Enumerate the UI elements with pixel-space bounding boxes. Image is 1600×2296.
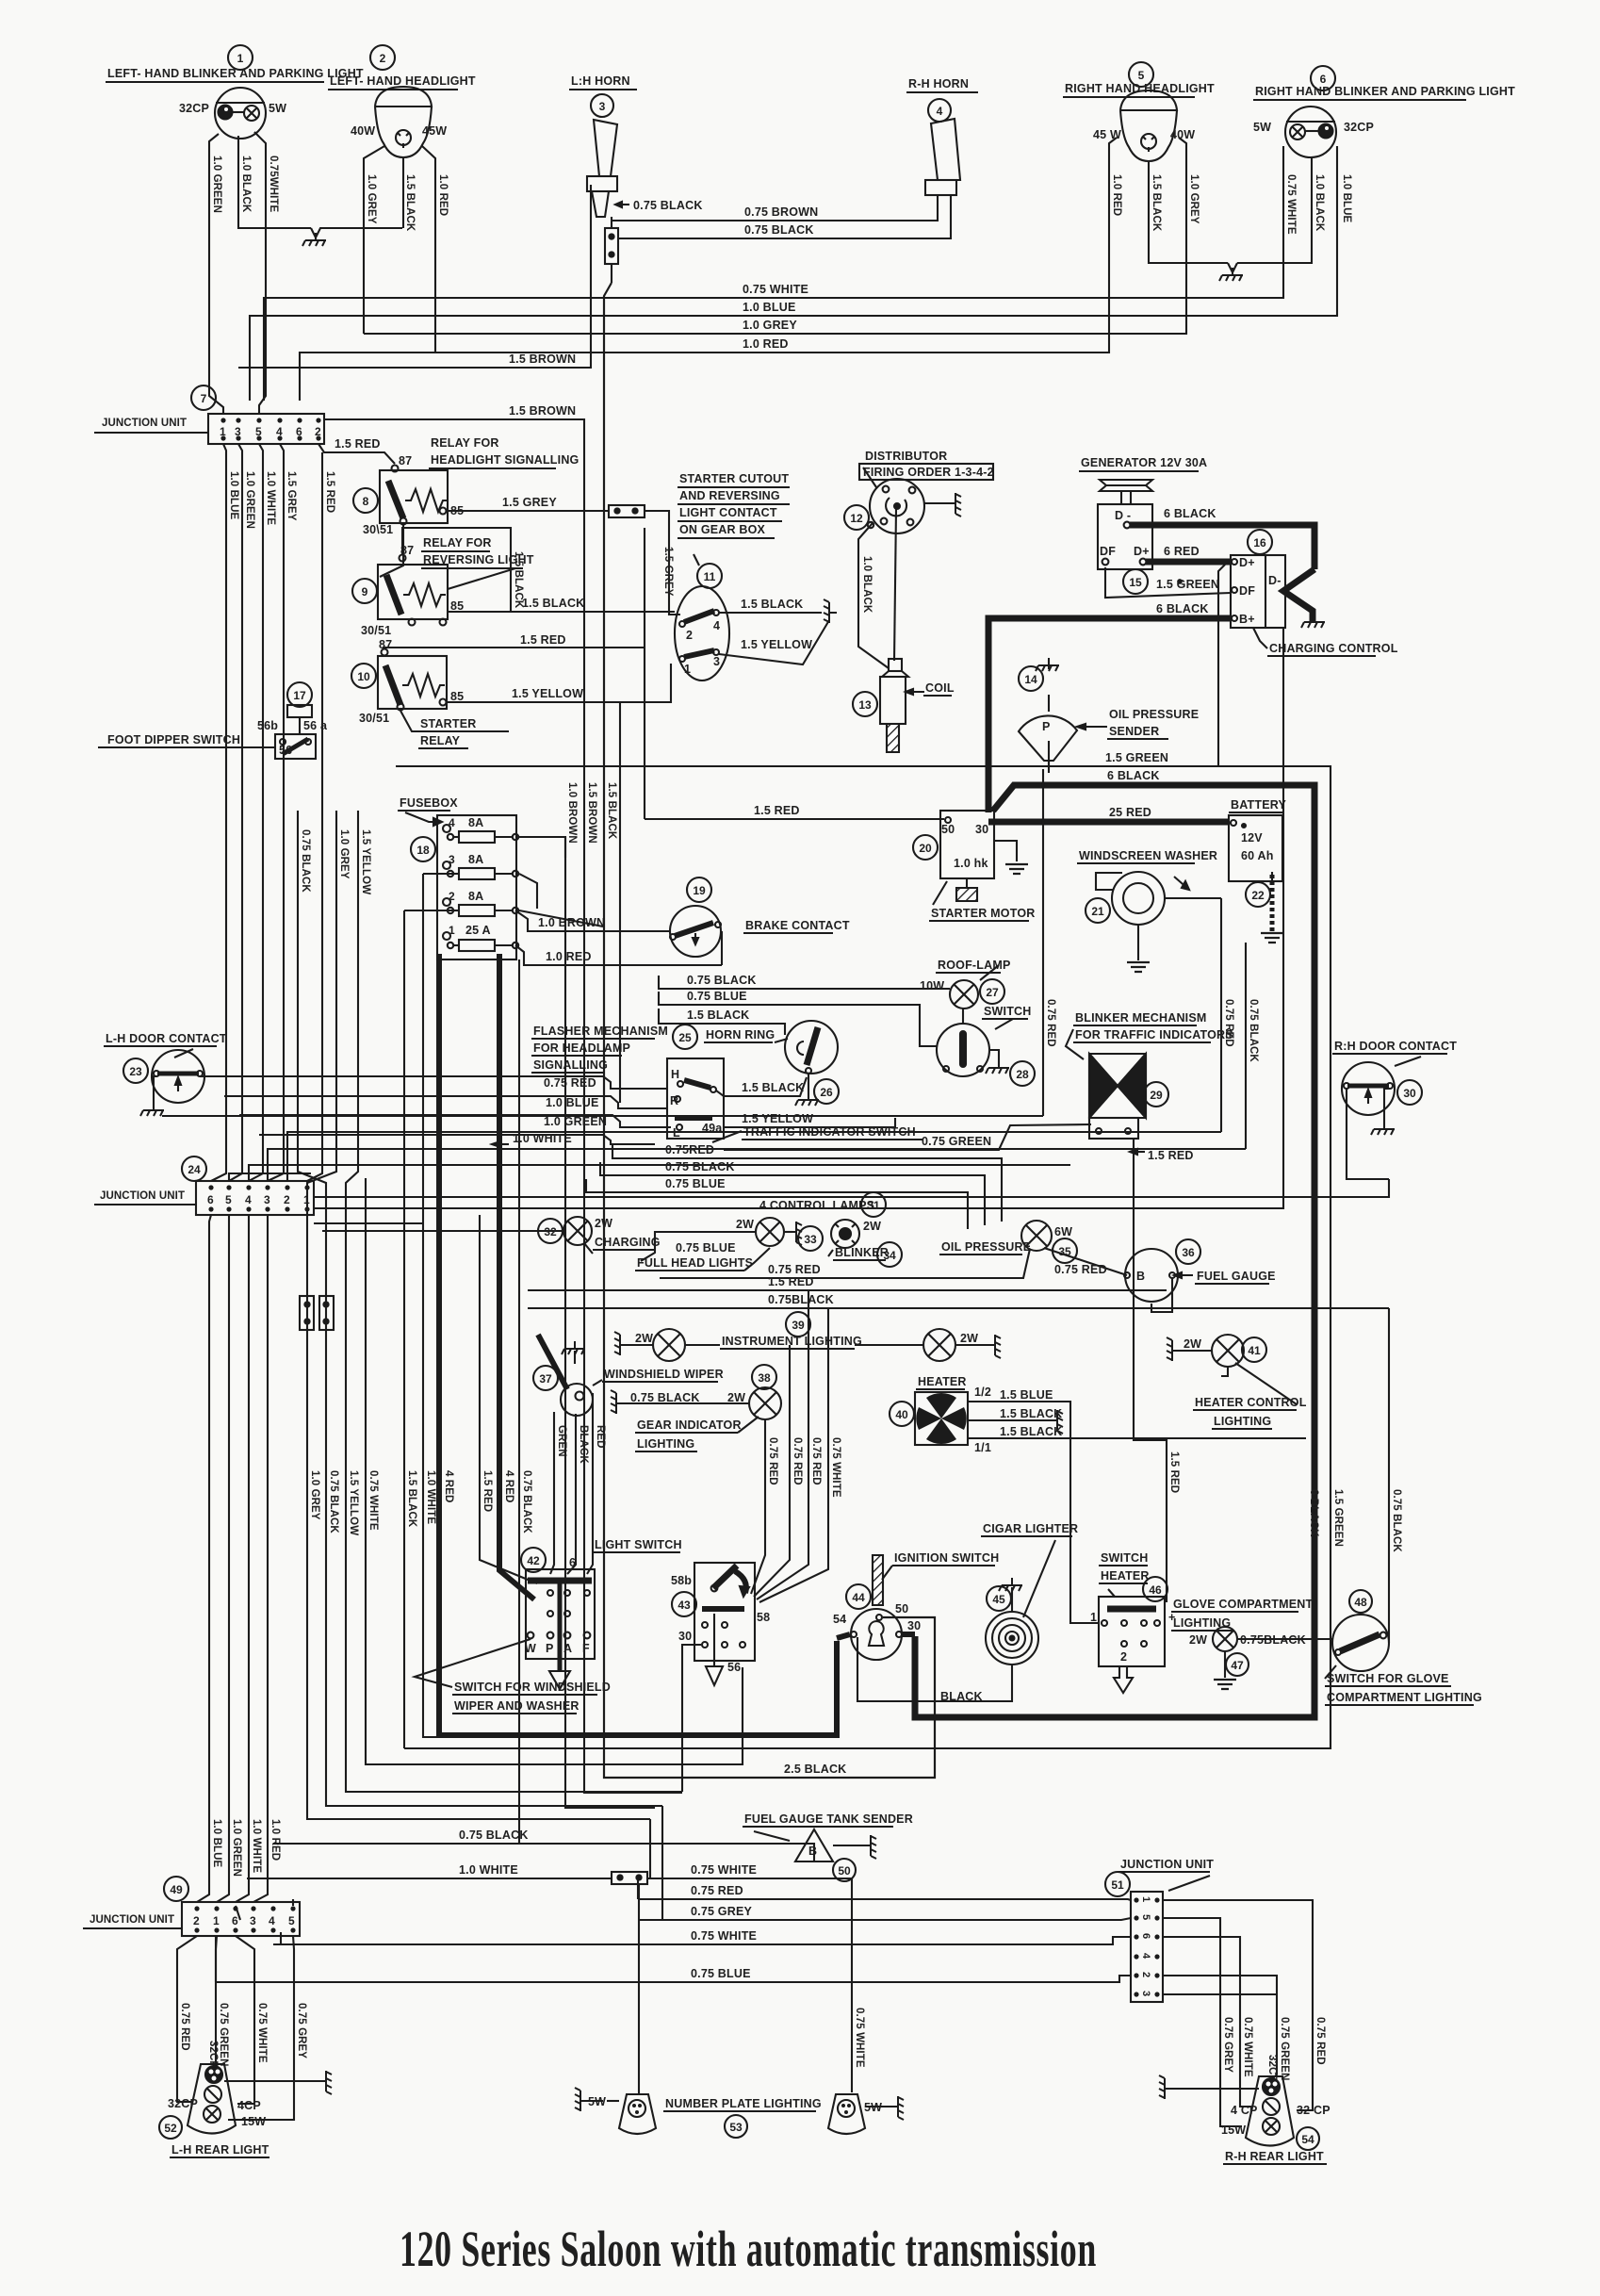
svg-text:DF: DF — [1100, 545, 1116, 558]
svg-text:1.5 RED: 1.5 RED — [1168, 1451, 1180, 1493]
fusebox 18 — [398, 796, 518, 959]
wire 1.5 GREY (connector to contact 11) — [645, 511, 680, 615]
wire 1.5 YELLOW — [346, 811, 682, 1792]
svg-text:0.75 BLACK: 0.75 BLACK — [300, 829, 311, 893]
wire 1.0 BLUE bus — [250, 146, 1337, 401]
wiper motor leads GREEN BLACK RED — [550, 1393, 606, 1574]
svg-text:AND REVERSING: AND REVERSING — [679, 489, 780, 502]
svg-text:2: 2 — [284, 1193, 290, 1206]
oil pressure lamp 35 — [939, 1221, 1077, 1263]
svg-text:1.5 BLUE: 1.5 BLUE — [1000, 1388, 1053, 1402]
wire 1.5 BLACK (flasher to horn ring) — [716, 1077, 807, 1096]
svg-text:0.75 RED: 0.75 RED — [768, 1263, 821, 1276]
svg-text:OIL PRESSURE: OIL PRESSURE — [1109, 708, 1199, 721]
rear light 52 (L-H) wires — [177, 1936, 307, 2120]
svg-text:2W: 2W — [1184, 1337, 1201, 1351]
junction unit 51 — [1105, 1858, 1214, 2002]
svg-text:LIGHT SWITCH: LIGHT SWITCH — [595, 1538, 682, 1551]
wire 1.5 GREEN (oil sender to right vertical) — [396, 741, 1331, 1748]
svg-text:0.75 BLACK: 0.75 BLACK — [633, 199, 703, 212]
svg-text:1.0 BLUE: 1.0 BLUE — [1341, 174, 1352, 223]
svg-text:85: 85 — [450, 599, 464, 613]
svg-text:1.0 GREEN: 1.0 GREEN — [244, 471, 255, 529]
svg-text:1.5 YELLOW: 1.5 YELLOW — [741, 638, 812, 651]
svg-text:87: 87 — [399, 454, 412, 467]
wire 0.75 BLUE (to switch 28) — [659, 990, 937, 1046]
svg-text:0.75 BLUE: 0.75 BLUE — [676, 1241, 736, 1255]
ground for lamps 1-2 — [302, 228, 402, 246]
lamp 5: right hand headlight — [1063, 62, 1215, 161]
svg-text:WINDSHIELD WIPER: WINDSHIELD WIPER — [604, 1368, 724, 1381]
wire 0.75 WHITE bus — [264, 146, 1283, 401]
svg-text:1.5 BLACK: 1.5 BLACK — [741, 598, 803, 611]
svg-text:COMPARTMENT LIGHTING: COMPARTMENT LIGHTING — [1327, 1691, 1482, 1704]
svg-text:12V: 12V — [1241, 831, 1263, 845]
svg-text:1: 1 — [1140, 1896, 1151, 1902]
wire 1.5 RED long vertical at 684 — [644, 528, 645, 819]
wire 25 RED (starter motor to battery, thick) — [988, 819, 1230, 826]
svg-text:1: 1 — [237, 52, 244, 65]
svg-text:FIRING ORDER 1-3-4-2: FIRING ORDER 1-3-4-2 — [863, 466, 994, 479]
coil 13 — [853, 659, 955, 752]
svg-text:W: W — [525, 1642, 536, 1655]
svg-text:14: 14 — [1024, 673, 1037, 686]
svg-text:1.0 BLUE: 1.0 BLUE — [546, 1096, 598, 1109]
svg-text:45 W: 45 W — [1093, 128, 1121, 141]
svg-text:R-H HORN: R-H HORN — [908, 77, 969, 90]
svg-text:CHARGING CONTROL: CHARGING CONTROL — [1269, 642, 1398, 655]
svg-text:P: P — [1042, 720, 1051, 733]
wire 4 RED (thick, to wiper switch) — [499, 954, 534, 1599]
wire 0.75 BLACK (glove switch up) — [1389, 1308, 1402, 1643]
svg-text:WIPER AND WASHER: WIPER AND WASHER — [454, 1699, 580, 1713]
svg-text:0.75 BLACK: 0.75 BLACK — [744, 223, 814, 237]
svg-text:3: 3 — [264, 1193, 270, 1206]
svg-text:56: 56 — [279, 744, 292, 757]
nested corner wires into light switch area — [638, 1645, 701, 1920]
svg-text:1.0 RED: 1.0 RED — [437, 174, 449, 216]
switch 42 for windshield wiper and washer — [415, 1548, 611, 1714]
svg-text:19: 19 — [693, 884, 706, 897]
svg-text:1.0 hk: 1.0 hk — [954, 857, 988, 870]
svg-text:52: 52 — [164, 2122, 177, 2135]
svg-text:INSTRUMENT LIGHTING: INSTRUMENT LIGHTING — [722, 1335, 862, 1348]
svg-text:WINDSCREEN WASHER: WINDSCREEN WASHER — [1079, 849, 1217, 862]
connectors on grey/black wires — [300, 1296, 314, 1330]
svg-text:1.0 GREY: 1.0 GREY — [743, 319, 797, 332]
wire 1.5 BLACK (heater lower) — [968, 1425, 1306, 1438]
svg-text:BLACK: BLACK — [578, 1425, 589, 1464]
svg-text:85: 85 — [450, 690, 464, 703]
svg-text:F: F — [582, 1642, 590, 1655]
svg-text:GEAR INDICATOR: GEAR INDICATOR — [637, 1419, 742, 1432]
svg-text:2: 2 — [193, 1914, 200, 1927]
svg-text:4: 4 — [937, 105, 943, 118]
number plate lighting 53 (right lamp) — [828, 2094, 904, 2134]
svg-text:25 A: 25 A — [465, 924, 491, 937]
rear light 52 (L-H) — [159, 2064, 332, 2157]
svg-text:0.75 BLACK: 0.75 BLACK — [1248, 999, 1259, 1062]
svg-text:1.0 WHITE: 1.0 WHITE — [513, 1132, 572, 1145]
svg-text:D+: D+ — [1239, 556, 1255, 569]
svg-text:R-H REAR LIGHT: R-H REAR LIGHT — [1225, 2150, 1324, 2163]
svg-text:1.5 BLACK: 1.5 BLACK — [687, 1009, 749, 1022]
svg-text:1: 1 — [684, 663, 691, 676]
wire 0.75 RED (lamp row right) — [660, 1249, 1030, 1278]
svg-text:SENDER: SENDER — [1109, 725, 1159, 738]
wire 1.5 BLACK (lamp 5 to ground) — [1149, 162, 1228, 263]
svg-text:0.75 GREY: 0.75 GREY — [691, 1905, 752, 1918]
wire BLACK label (cigar lighter feed) — [940, 1690, 983, 1703]
wire 1.0 RED (fuse 1 right) — [515, 945, 722, 965]
svg-text:47: 47 — [1231, 1659, 1244, 1672]
wire 0.75 BROWN (horn 3 to horn 4) — [612, 195, 938, 221]
svg-text:HEATER: HEATER — [1101, 1569, 1150, 1583]
horn ring 26 — [673, 1021, 839, 1106]
gear indicator lighting 38 — [611, 1365, 781, 1451]
svg-text:1.5 YELLOW: 1.5 YELLOW — [742, 1112, 813, 1125]
svg-text:1.5 BLACK: 1.5 BLACK — [606, 782, 617, 840]
wire 0.75 BLACK (horn 3 to horn 4) — [618, 195, 951, 238]
svg-text:0.75 WHITE: 0.75 WHITE — [691, 1929, 757, 1943]
svg-text:JUNCTION UNIT: JUNCTION UNIT — [90, 1914, 174, 1926]
svg-text:4 CP: 4 CP — [1231, 2104, 1258, 2117]
svg-text:6: 6 — [1320, 73, 1327, 86]
wire 0.75 RED (left to flasher) — [204, 1076, 667, 1090]
svg-text:DISTRIBUTOR: DISTRIBUTOR — [865, 450, 947, 463]
traffic indicator switch label — [712, 1125, 923, 1142]
svg-text:23: 23 — [129, 1065, 142, 1078]
wire 6 BLACK (regulator B+ to left, thick) — [988, 618, 1231, 812]
svg-text:39: 39 — [792, 1319, 805, 1332]
svg-text:25: 25 — [678, 1031, 692, 1044]
svg-text:1.5 GREEN: 1.5 GREEN — [1105, 751, 1168, 764]
svg-text:1.5 BROWN: 1.5 BROWN — [586, 782, 597, 844]
lamp 2: left-hand headlight — [328, 45, 476, 157]
light switch 43 — [593, 1538, 770, 1685]
wire 1.0 WHITE (left to flasher) — [259, 1132, 655, 1147]
wire 1.5 YELLOW (relay 10 85 to right) — [447, 664, 671, 702]
svg-text:30: 30 — [1403, 1087, 1416, 1100]
svg-text:NUMBER PLATE LIGHTING: NUMBER PLATE LIGHTING — [665, 2097, 822, 2110]
switch heater 46 — [1090, 1551, 1176, 1693]
wire 1.5 RED (vertical at 342 down) — [307, 452, 335, 1181]
wire 1.5 BROWN (upper, to L-H horn branch) — [238, 185, 591, 368]
wire from L-H horn down — [611, 217, 612, 283]
svg-text:B: B — [1136, 1270, 1145, 1283]
svg-text:2W: 2W — [727, 1391, 745, 1404]
svg-text:2: 2 — [449, 890, 455, 903]
wire 0.75 RED (bottom bus 2) — [638, 1884, 1131, 1900]
instrument lamp right — [855, 1329, 1001, 1361]
instrument lighting 39 — [720, 1312, 862, 1349]
contact 11: starter cutout and reversing light contact on gear box — [675, 472, 790, 681]
svg-text:HORN RING: HORN RING — [706, 1028, 775, 1041]
svg-text:6 BLACK: 6 BLACK — [1107, 769, 1160, 782]
svg-text:LEFT- HAND HEADLIGHT: LEFT- HAND HEADLIGHT — [330, 74, 476, 88]
svg-text:6 BLACK: 6 BLACK — [1164, 507, 1216, 520]
svg-text:3: 3 — [1140, 1991, 1151, 1996]
svg-text:1.0 BLUE: 1.0 BLUE — [743, 301, 795, 314]
svg-text:0.75 GREEN: 0.75 GREEN — [922, 1135, 991, 1148]
svg-text:1.5 BLACK: 1.5 BLACK — [742, 1081, 804, 1094]
svg-text:1: 1 — [213, 1914, 220, 1927]
wire 1.5 YELLOW (flasher L) — [724, 1112, 895, 1127]
svg-text:34: 34 — [883, 1249, 896, 1262]
svg-text:FULL HEAD LIGHTS: FULL HEAD LIGHTS — [637, 1256, 753, 1270]
wire 1.0 GREY bus — [364, 138, 1186, 334]
wire 0.75 RED (washer down) — [1221, 898, 1234, 1132]
svg-text:SWITCH FOR WINDSHIELD: SWITCH FOR WINDSHIELD — [454, 1681, 611, 1694]
relay 10: starter relay — [351, 638, 509, 748]
wire 0.75 BLACK — [518, 959, 520, 1844]
svg-text:26: 26 — [820, 1086, 833, 1099]
svg-text:BRAKE CONTACT: BRAKE CONTACT — [745, 919, 850, 932]
wire 1.0 GREY (lamp 2 to grey bus) — [364, 146, 384, 334]
svg-text:4: 4 — [449, 816, 455, 829]
bottom bus left risers — [216, 1899, 293, 1982]
svg-text:1.0 RED: 1.0 RED — [1111, 174, 1122, 216]
wire 1.0 BLUE (left to flasher) — [224, 1096, 667, 1109]
wire 1.0 BROWN label right of fusebox — [519, 837, 565, 909]
wire 0.75 BLACK (control lamp bus 2) — [600, 1160, 985, 1225]
svg-text:30: 30 — [907, 1619, 921, 1632]
wire 6 BLACK (generator D- to regulator D-) thick — [1130, 525, 1314, 622]
svg-text:5: 5 — [225, 1193, 232, 1206]
svg-text:0.75 BLACK: 0.75 BLACK — [521, 1470, 532, 1533]
wire 0.75 BLACK label at horn 3 — [615, 199, 703, 212]
svg-text:FOR HEADLAMP: FOR HEADLAMP — [533, 1041, 630, 1055]
wire 1.0 BROWN (fuse 2 to brake contact) — [515, 910, 671, 931]
wire 1.5 RED (to starter motor 50) — [645, 804, 944, 819]
svg-text:0.75 WHITE: 0.75 WHITE — [1242, 2017, 1253, 2077]
wire 0.75 BLACK (long) — [528, 1293, 1389, 1308]
svg-text:HEADLIGHT SIGNALLING: HEADLIGHT SIGNALLING — [431, 453, 579, 467]
wire 0.75 RED (lamp 35 to fuel gauge) — [1044, 1248, 1127, 1276]
wire 0.75 RED (control lamp bus 1) — [612, 1143, 1002, 1222]
wire 1.0 GREEN (junction 7 pin 3 down) — [229, 444, 255, 1181]
svg-text:1.5 BLACK: 1.5 BLACK — [1151, 174, 1162, 232]
svg-text:FLASHER MECHANISM: FLASHER MECHANISM — [533, 1025, 668, 1038]
wire 1.0 WHITE — [423, 874, 439, 1737]
svg-text:1.0 BROWN: 1.0 BROWN — [566, 782, 578, 844]
svg-text:24: 24 — [188, 1163, 201, 1176]
relay 9: relay for reversing light — [352, 536, 534, 637]
svg-text:8A: 8A — [468, 890, 483, 903]
fuel gauge 36 — [1124, 1239, 1276, 1312]
svg-text:A: A — [563, 1642, 572, 1655]
svg-text:18: 18 — [416, 844, 430, 857]
svg-text:7: 7 — [201, 392, 207, 405]
brake contact 19 — [670, 877, 850, 965]
svg-text:41: 41 — [1248, 1344, 1261, 1357]
svg-text:0.75 WHITE: 0.75 WHITE — [256, 2003, 268, 2063]
svg-text:56b: 56b — [257, 719, 278, 732]
svg-text:D -: D - — [1115, 509, 1131, 522]
junction 51 wires to rear light 54 — [1163, 1900, 1326, 2126]
lamp 1: left-hand blinker and parking light — [106, 45, 364, 139]
svg-text:1: 1 — [1090, 1611, 1097, 1624]
svg-text:58: 58 — [757, 1611, 770, 1624]
relay 8: relay for headlight signalling — [353, 436, 579, 536]
svg-text:4: 4 — [1140, 1953, 1151, 1960]
svg-text:1.5 RED: 1.5 RED — [324, 471, 335, 513]
svg-text:LIGHT CONTACT: LIGHT CONTACT — [679, 506, 777, 519]
glove compartment lighting 47 — [1171, 1598, 1332, 1689]
svg-text:1.0 BLACK: 1.0 BLACK — [1314, 174, 1325, 232]
wire 1.5 BLUE (heater) — [968, 1388, 1099, 1623]
svg-text:0.75 WHITE: 0.75 WHITE — [367, 1470, 379, 1531]
wire 1.5 BLACK (relay 9 85 to right) — [447, 597, 675, 612]
svg-text:5: 5 — [1138, 69, 1145, 82]
wire 1.5 GREY (relay 8 to gearbox contact) — [447, 496, 609, 511]
horn 4: R-H horn — [906, 77, 978, 195]
instrument lamp left — [614, 1329, 720, 1361]
svg-text:10W: 10W — [920, 979, 944, 992]
switch 28 (roof lamp switch) — [937, 1005, 1035, 1086]
svg-text:0.75 WHITE: 0.75 WHITE — [1285, 174, 1297, 235]
svg-text:15W: 15W — [1221, 2124, 1246, 2137]
wire 0.75 GREEN (to blinker mechanism) — [724, 1124, 1091, 1150]
blinker control lamp 34 — [828, 1220, 902, 1267]
svg-text:1.5 BLACK: 1.5 BLACK — [522, 597, 584, 610]
wire 0.75 BLACK (vertical right of washer) — [1246, 943, 1259, 1149]
wire 1.5 BLACK (heater to ground) — [968, 1407, 1063, 1434]
left cable bundle from junction 24 down to junction 49 — [197, 1215, 281, 1902]
svg-text:6W: 6W — [1054, 1225, 1072, 1238]
svg-text:1.0 GREEN: 1.0 GREEN — [231, 1819, 242, 1877]
svg-text:0.75 BLACK: 0.75 BLACK — [665, 1160, 735, 1173]
svg-text:0.75 BLACK: 0.75 BLACK — [459, 1829, 529, 1842]
svg-text:1.5 YELLOW: 1.5 YELLOW — [512, 687, 583, 700]
wire from regulator D+ down — [1218, 565, 1225, 766]
svg-text:50: 50 — [895, 1602, 908, 1615]
connector on L-H horn lead — [605, 228, 618, 264]
flasher mechanism 25 for headlamp signalling — [531, 1025, 724, 1140]
svg-text:30/51: 30/51 — [361, 624, 391, 637]
svg-text:43: 43 — [678, 1599, 691, 1612]
svg-text:120 Series Saloon with automat: 120 Series Saloon with automatic transmi… — [400, 2221, 1097, 2277]
svg-text:1.0 WHITE: 1.0 WHITE — [425, 1470, 436, 1524]
svg-text:1.0 WHITE: 1.0 WHITE — [251, 1819, 262, 1873]
wire 1.0 BLACK (distributor to coil) — [858, 522, 889, 668]
svg-text:11: 11 — [704, 570, 716, 583]
wire 1.0 WHITE / 0.75 WHITE (bottom bus 1) — [247, 1863, 865, 2094]
door contact 23 (L-H) — [104, 1032, 227, 1116]
svg-text:1.0 BLUE: 1.0 BLUE — [228, 471, 239, 520]
wire 2.5 BLACK label and bundle labels — [566, 782, 846, 1776]
wire 1.5 BLACK (contact 11 to ground) — [719, 598, 837, 623]
svg-text:LIGHTING: LIGHTING — [637, 1437, 694, 1451]
right side vertical labels — [1308, 1489, 1344, 1547]
number plate lighting 53 (label) — [663, 2097, 822, 2138]
wire 1.0 BROWN (long vertical) — [565, 837, 655, 1808]
wire 1.0 BROWN label (fusebox right diagonal) — [519, 910, 603, 927]
wire distributor centre to coil top — [894, 509, 896, 661]
svg-text:87: 87 — [379, 638, 392, 651]
svg-text:0.75 RED: 0.75 RED — [691, 1884, 743, 1897]
wire 1.5 GREEN (generator DF to regulator DF) — [1105, 567, 1231, 598]
svg-text:R:H DOOR CONTACT: R:H DOOR CONTACT — [1334, 1040, 1457, 1053]
svg-text:STARTER MOTOR: STARTER MOTOR — [931, 907, 1035, 920]
svg-text:1.0 BLUE: 1.0 BLUE — [211, 1819, 222, 1868]
svg-text:IGNITION SWITCH: IGNITION SWITCH — [894, 1551, 999, 1565]
junction unit 24 — [94, 1156, 314, 1215]
svg-text:49: 49 — [170, 1883, 183, 1896]
svg-text:0.75 BLACK: 0.75 BLACK — [1391, 1489, 1402, 1552]
wire 0.75 RED (vertical at 1107) — [1043, 769, 1056, 1116]
svg-text:0.75 GREEN: 0.75 GREEN — [1279, 2017, 1290, 2080]
rear light 54 (R-H) — [1159, 2075, 1331, 2164]
svg-text:50: 50 — [838, 1864, 851, 1878]
wire 0.75 WHITE (bottom bus 4) — [273, 1929, 1131, 1944]
wire 0.75 WHITE — [366, 1178, 743, 1764]
svg-text:1.5 RED: 1.5 RED — [520, 633, 566, 647]
svg-text:54: 54 — [1301, 2133, 1314, 2146]
svg-text:L-H DOOR CONTACT: L-H DOOR CONTACT — [106, 1032, 227, 1045]
title — [400, 2221, 1097, 2277]
svg-text:5: 5 — [288, 1914, 295, 1927]
svg-text:ROOF-LAMP: ROOF-LAMP — [938, 959, 1010, 972]
svg-text:1.0 GREY: 1.0 GREY — [366, 174, 377, 224]
svg-text:2W: 2W — [635, 1332, 653, 1345]
svg-text:46: 46 — [1149, 1583, 1162, 1597]
switch 48 for glove compartment lighting — [1325, 1590, 1482, 1705]
svg-text:0.75 BLUE: 0.75 BLUE — [687, 990, 747, 1003]
svg-text:32CP: 32CP — [1344, 121, 1374, 134]
svg-text:FOOT DIPPER SWITCH: FOOT DIPPER SWITCH — [107, 733, 240, 746]
svg-text:2W: 2W — [960, 1332, 978, 1345]
svg-text:1.5 BLACK: 1.5 BLACK — [406, 1470, 417, 1528]
svg-text:RELAY FOR: RELAY FOR — [423, 536, 492, 549]
svg-text:4: 4 — [269, 1914, 275, 1927]
svg-text:H: H — [671, 1068, 679, 1081]
svg-text:B: B — [808, 1845, 817, 1858]
fuse 2 8A — [443, 898, 450, 906]
svg-text:2: 2 — [1120, 1650, 1127, 1664]
wire 4 RED thick (ignition 54 stub) — [837, 1634, 850, 1638]
svg-text:BATTERY: BATTERY — [1231, 798, 1286, 812]
wire 1.0 RED (lamp 2 to red bus) — [422, 146, 449, 353]
svg-text:OIL PRESSURE: OIL PRESSURE — [941, 1240, 1031, 1254]
svg-text:6: 6 — [1140, 1933, 1151, 1939]
svg-text:30: 30 — [678, 1630, 692, 1643]
svg-text:0.75 RED: 0.75 RED — [1314, 2017, 1326, 2065]
svg-text:1.5 GREY: 1.5 GREY — [662, 547, 674, 597]
fuel gauge tank sender 50 — [743, 1812, 913, 1881]
blinker mechanism 29 for traffic indicators — [1066, 1011, 1233, 1139]
svg-text:2W: 2W — [736, 1218, 754, 1231]
mid cable bundle with corner turns — [298, 811, 837, 1844]
svg-text:6 BLACK: 6 BLACK — [1308, 1489, 1319, 1537]
wire 1.0 WHITE (bus) — [162, 628, 1389, 1208]
full head lights lamp 33 — [736, 1218, 823, 1251]
svg-text:SIGNALLING: SIGNALLING — [533, 1058, 608, 1072]
svg-text:L-H REAR LIGHT: L-H REAR LIGHT — [171, 2143, 269, 2157]
wire 1.5 BLACK vertical from relay 9 87 — [402, 528, 524, 612]
svg-text:JUNCTION UNIT: JUNCTION UNIT — [102, 418, 187, 429]
svg-text:20: 20 — [919, 842, 932, 855]
wire 1.5 BLACK — [423, 873, 453, 875]
svg-text:30\51: 30\51 — [363, 523, 393, 536]
svg-text:JUNCTION UNIT: JUNCTION UNIT — [100, 1190, 185, 1202]
wire 1.0 GREY — [307, 811, 650, 1819]
svg-text:4: 4 — [713, 619, 720, 632]
svg-text:0.75BLACK: 0.75BLACK — [768, 1293, 834, 1306]
battery 22 — [1229, 798, 1286, 943]
svg-text:GENERATOR 12V 30A: GENERATOR 12V 30A — [1081, 456, 1207, 469]
wire 1.0 GREEN (left to flasher) — [239, 1115, 671, 1128]
